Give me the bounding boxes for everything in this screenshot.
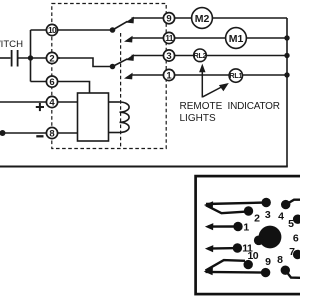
socket pin 11: [233, 243, 242, 252]
junction dot bus RL1: [284, 72, 289, 77]
indicator light RL1: [229, 69, 242, 82]
terminal 1: [163, 69, 174, 81]
socket pin 9: [261, 268, 270, 277]
terminal 3: [163, 50, 174, 62]
wire row 9 to M2 and bus: [132, 17, 288, 19]
svg-text:M1: M1: [229, 33, 244, 45]
junction dot bus RL2: [284, 53, 289, 58]
socket pin 10: [244, 260, 253, 269]
socket wire to pin 11: [208, 247, 237, 250]
junction dot bus M1: [284, 35, 289, 40]
socket keyway: [254, 236, 264, 246]
relay enclosure dashed box: [52, 4, 166, 149]
terminal 9: [163, 13, 174, 25]
svg-text:11: 11: [165, 33, 174, 43]
svg-text:3: 3: [265, 209, 271, 221]
bottom bus wire: [0, 166, 288, 168]
wire row 1 to RL1 and bus: [131, 74, 288, 76]
socket wire arrow bottom: [204, 268, 213, 276]
svg-text:9: 9: [166, 14, 171, 25]
motor M2: [192, 8, 213, 29]
svg-text:REMOTE: REMOTE: [180, 101, 223, 112]
wire coil stub bottom: [109, 132, 120, 134]
svg-text:LIGHTS: LIGHTS: [180, 113, 216, 124]
terminal 2: [46, 52, 57, 64]
label REMOTE INDICATOR LIGHTS: [180, 101, 280, 124]
switch SW contact plates: [12, 50, 18, 67]
svg-text:INDICATOR: INDICATOR: [228, 101, 280, 112]
svg-text:8: 8: [49, 128, 54, 139]
svg-text:5: 5: [288, 218, 294, 230]
right bus wire: [286, 18, 288, 167]
wire row 3 to RL2 and bus: [132, 55, 288, 57]
wire row 8 to coil box: [0, 132, 78, 134]
junction dot switch node: [28, 55, 33, 60]
terminal 8: [46, 127, 57, 139]
socket wire from pin 4: [286, 200, 301, 205]
socket pin 3: [262, 198, 271, 207]
junction dot row 8 edge: [0, 130, 6, 136]
svg-text:3: 3: [166, 51, 171, 62]
terminal 11: [163, 32, 174, 43]
minus polarity mark: [36, 135, 43, 137]
plus polarity mark: [36, 103, 44, 111]
svg-text:4: 4: [278, 210, 284, 222]
callout arrow to RL1: [203, 83, 229, 97]
svg-text:6: 6: [49, 77, 54, 88]
terminal 10: [46, 24, 57, 35]
svg-text:2: 2: [254, 212, 260, 224]
wire switch to pin 2: [19, 57, 61, 59]
socket center post: [259, 226, 282, 249]
wire switch left lead: [0, 57, 11, 59]
socket box (11-pin socket, bottom view): [196, 176, 306, 294]
socket pin 2: [244, 206, 253, 215]
mechanical link (dashed): [120, 33, 122, 149]
terminal 4: [46, 96, 57, 108]
svg-text:M2: M2: [195, 13, 210, 25]
svg-text:11: 11: [242, 242, 253, 254]
svg-text:2: 2: [49, 53, 54, 64]
svg-text:SWITCH: SWITCH: [0, 39, 23, 50]
wire row 10 to pole A: [31, 29, 113, 31]
switch arm A: [113, 21, 128, 30]
socket pin 4: [281, 200, 290, 209]
socket wire arrow pin11: [205, 245, 213, 252]
svg-text:4: 4: [49, 97, 55, 108]
indicator light RL2: [194, 49, 207, 62]
wire pin2 to pole B: [58, 58, 113, 67]
svg-text:RL2: RL2: [194, 51, 207, 60]
junction dot pole B: [110, 64, 116, 70]
wire row 11 to M1 and bus: [131, 37, 288, 39]
relay electronics box: [78, 93, 109, 141]
socket pin number labels: [242, 209, 299, 268]
terminal 6: [46, 76, 57, 88]
socket pin 7: [293, 250, 302, 259]
motor M1: [226, 28, 247, 49]
switch arm B: [113, 59, 128, 67]
socket wire fork upper branch to pin 10: [206, 260, 246, 271]
socket wire arrow pin1: [205, 223, 213, 230]
wire branch vertical: [30, 30, 32, 82]
junction dot pole A: [110, 27, 116, 33]
socket pin 1: [233, 222, 242, 231]
socket wire from pin 8: [285, 270, 301, 278]
wire row 4 to coil box: [0, 101, 78, 103]
wire row 6 to coil box: [31, 82, 90, 94]
svg-text:1: 1: [166, 70, 172, 81]
svg-text:1: 1: [243, 222, 249, 234]
contact arrowhead row 3: [125, 54, 134, 61]
svg-text:10: 10: [48, 25, 57, 35]
contact arrowhead row 9: [125, 17, 134, 24]
socket wire fork lower branch to pin 2: [206, 205, 249, 213]
socket wire to pin 1: [208, 225, 238, 228]
svg-text:6: 6: [293, 233, 299, 245]
wire coil stub top: [109, 101, 120, 103]
socket wire fork lower branch to pin 9: [206, 271, 266, 274]
svg-text:8: 8: [277, 254, 283, 266]
socket pin 8: [281, 266, 290, 275]
contact arrowhead row 11: [124, 36, 133, 43]
callout arrow to RL2: [199, 64, 205, 98]
socket pin 5: [293, 215, 302, 224]
svg-text:9: 9: [265, 256, 271, 268]
socket wire arrow top: [204, 201, 213, 209]
socket wire fork upper branch to pin 3: [206, 203, 266, 205]
svg-text:RL1: RL1: [229, 71, 242, 80]
contact arrowhead row 1: [124, 73, 133, 80]
svg-text:7: 7: [289, 246, 295, 258]
relay coil K1: [120, 102, 130, 133]
